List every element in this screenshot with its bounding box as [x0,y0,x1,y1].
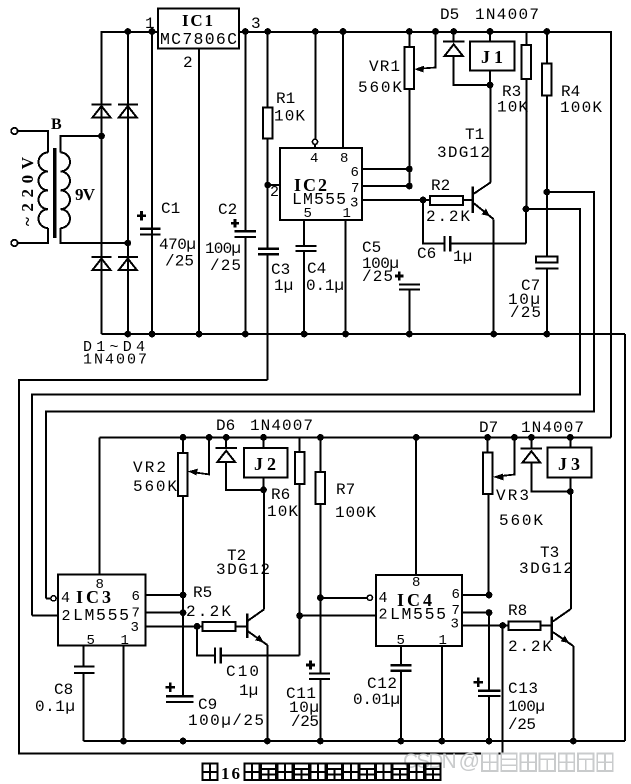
svg-text:16: 16 [221,764,240,783]
svg-text:3: 3 [451,617,459,633]
wire IC1 pin2 to ground rail [198,49,200,334]
svg-text:6: 6 [132,589,140,605]
wire IC2 pin1 to ground [345,220,347,334]
transformer B primary winding [17,131,48,243]
wire IC4 pin7 [462,612,489,614]
svg-text:R6: R6 [271,486,290,504]
svg-text:~220V: ~220V [18,156,37,226]
svg-text:100µ: 100µ [205,240,241,258]
capacitor C9 [166,696,194,702]
svg-text:LM555: LM555 [292,190,346,209]
wire IC2 pin7 [362,185,409,187]
svg-text:10K: 10K [267,503,298,521]
wire C1 column [151,31,153,334]
resistor R8 [508,622,540,631]
svg-text:560K: 560K [499,512,543,530]
wire IC4 pin3 to R8 [462,625,508,627]
svg-text:100K: 100K [560,99,602,117]
wire top rail left segment [102,31,159,33]
svg-text:1: 1 [343,206,351,222]
diode D6 [225,437,227,448]
capacitor C11 [309,674,330,679]
capacitor C6 [423,200,443,244]
capacitor C13 [488,613,490,691]
svg-text:/25: /25 [165,253,194,271]
svg-text:3DG12: 3DG12 [519,560,573,578]
VR2 wiper arrow [195,437,210,474]
resistor R7 [319,437,321,472]
svg-text:0.1µ: 0.1µ [35,698,75,716]
svg-text:560K: 560K [358,79,402,97]
svg-text:C1: C1 [161,200,180,218]
svg-text:4: 4 [379,590,388,607]
watermark hanzi 叶绿体不忘呼吸 [482,754,613,772]
diode D2 (bridge top-right) [118,105,138,118]
wire IC2 pin3 to R2 [362,199,430,201]
svg-text:5: 5 [304,206,312,222]
wire IC4 pin1 [441,646,443,741]
wire bridge right column [127,31,129,334]
svg-text:5: 5 [87,633,95,649]
svg-text:3: 3 [350,196,358,212]
wire IC2 pin6 [362,168,409,170]
wire IC3 pin2 [32,615,58,617]
svg-text:2: 2 [270,184,279,201]
svg-text:1µ: 1µ [239,682,258,700]
relay J1 [489,31,491,42]
svg-text:VR3: VR3 [496,487,529,505]
svg-text:6: 6 [351,165,359,181]
capacitor C12 [400,646,402,665]
svg-text:1µ: 1µ [453,248,472,266]
svg-text:LM555: LM555 [390,605,446,624]
wire IC3 pin6 [146,594,183,596]
svg-text:1N4007: 1N4007 [250,417,313,435]
svg-text:C4: C4 [307,260,326,278]
svg-text:9V: 9V [75,185,96,204]
svg-text:10K: 10K [497,99,528,117]
svg-text:0.1µ: 0.1µ [306,277,344,295]
svg-text:1µ: 1µ [274,277,293,295]
diode D5 [453,31,455,42]
wire IC3 pin1 [123,646,125,742]
lower ground rail [84,740,625,742]
svg-text:2: 2 [62,608,71,625]
wire C3 bottom feedback loop [19,380,503,754]
svg-text:R5: R5 [193,584,212,602]
caption 图16 多级循环定时控制器电路图 [203,764,218,781]
svg-text:100µ: 100µ [508,698,545,716]
svg-text:LM555: LM555 [73,606,129,625]
svg-text:/25: /25 [291,713,319,731]
capacitor C1 [140,229,161,235]
diode D1 (bridge top-left) [92,105,112,118]
wire IC3 pin3 to R5 [146,625,203,627]
diode D7 [530,437,532,448]
svg-text:470µ: 470µ [159,236,196,254]
svg-text:C6: C6 [417,245,436,263]
capacitor C10 [197,626,214,655]
svg-text:R7: R7 [336,481,355,499]
potentiometer VR2 [182,437,184,453]
capacitor C8 [83,646,85,667]
wire ground link right column [624,334,626,741]
svg-text:IC1: IC1 [182,11,213,30]
svg-text:100K: 100K [335,504,376,522]
transistor T1 [490,85,492,183]
svg-text:C10: C10 [226,663,259,681]
resistor R1 [267,31,269,108]
transformer B secondary winding [61,136,128,243]
svg-text:C2: C2 [218,201,237,219]
IC1 box MC7806C [158,9,239,49]
svg-text:4: 4 [310,151,318,167]
wire top rail right segment [239,31,611,33]
potentiometer VR1 [408,31,410,47]
svg-text:T1: T1 [465,126,484,144]
capacitor C4 [303,220,305,246]
svg-text:3DG12: 3DG12 [437,144,490,162]
capacitor C2 [244,31,246,334]
resistor R3 [526,31,528,45]
svg-text:IC3: IC3 [76,587,111,607]
wire IC4 pin6 [462,594,489,596]
svg-text:1N4007: 1N4007 [83,352,147,369]
svg-text:10K: 10K [274,108,305,126]
wire R3 node to IC3 pin2 (via x580) [32,209,580,616]
svg-text:8: 8 [340,151,348,167]
relay J2 [263,437,265,447]
svg-text:/25: /25 [210,257,241,275]
IC2 pin4 wire and circle [314,31,316,139]
transistor T2 [246,614,249,639]
VR1 wiper arrow [421,31,436,69]
wire IC3 pin8 column [99,437,101,574]
svg-text:VR1: VR1 [369,58,400,76]
wire IC2 pin2 [268,184,280,186]
resistor R6 [299,437,301,452]
svg-text:D6: D6 [216,417,235,435]
IC4 box LM555 [376,575,462,646]
wire IC3 pin7 [146,612,183,614]
svg-text:/25: /25 [508,716,536,734]
capacitor C7 [546,192,548,256]
svg-text:3: 3 [251,15,261,33]
svg-text:2.2K: 2.2K [508,638,552,656]
svg-text:1: 1 [121,633,129,649]
svg-text:2.2K: 2.2K [186,603,231,621]
IC3 box LM555 [58,575,146,646]
resistor R5 [203,622,236,631]
wire bridge left column [101,31,103,334]
IC3 pin4 circle [51,596,56,601]
transformer core [53,148,57,238]
lower +6V rail [100,436,612,438]
svg-text:R8: R8 [508,602,527,620]
relay J3 [569,437,571,447]
svg-text:0.01µ: 0.01µ [353,691,400,709]
terminal bottom-left [11,240,17,246]
svg-text:2: 2 [379,607,388,624]
svg-text:3DG12: 3DG12 [216,561,270,579]
VR3 wiper arrow [500,437,515,476]
svg-text:2: 2 [183,54,193,72]
svg-text:MC7806C: MC7806C [160,30,237,49]
potentiometer VR3 [487,437,489,452]
wire R4 node to IC3 pin4 (via x594) [46,192,594,598]
transistor T3 [550,617,553,641]
svg-text:4: 4 [61,590,70,607]
svg-text:2.2K: 2.2K [426,208,470,226]
wire IC4 pin8 column [415,437,417,575]
wire +6V right column [610,31,612,437]
resistor R4 [546,31,548,64]
wire IC4 pin2 [300,615,376,617]
svg-text:6: 6 [452,587,460,603]
svg-text:1N4007: 1N4007 [475,6,539,24]
svg-text:560K: 560K [133,478,177,496]
IC4 pin4 circle [367,595,372,600]
IC2 pin8 wire [342,31,344,148]
capacitor C3 [258,249,279,254]
svg-text:/25: /25 [510,304,541,322]
diode D3 (bridge bottom-left) [92,257,112,270]
svg-text:B: B [51,116,62,133]
svg-text:/25: /25 [362,268,393,286]
svg-text:R1: R1 [276,90,295,108]
svg-text:C13: C13 [508,680,538,698]
svg-text:3: 3 [131,620,139,636]
resistor R2 [430,196,463,205]
ground rail top section [102,333,626,335]
svg-text:100µ/25: 100µ/25 [188,712,264,730]
terminal top-left [11,128,17,134]
svg-text:C8: C8 [54,681,73,699]
svg-text:VR2: VR2 [133,459,166,477]
IC2 box LM555 [280,148,362,220]
diode D4 (bridge bottom-right) [118,257,138,270]
capacitor C5 [399,284,420,289]
svg-text:8: 8 [96,577,104,593]
svg-text:R2: R2 [431,177,450,195]
svg-text:D5: D5 [440,6,459,24]
svg-text:8: 8 [412,575,420,591]
